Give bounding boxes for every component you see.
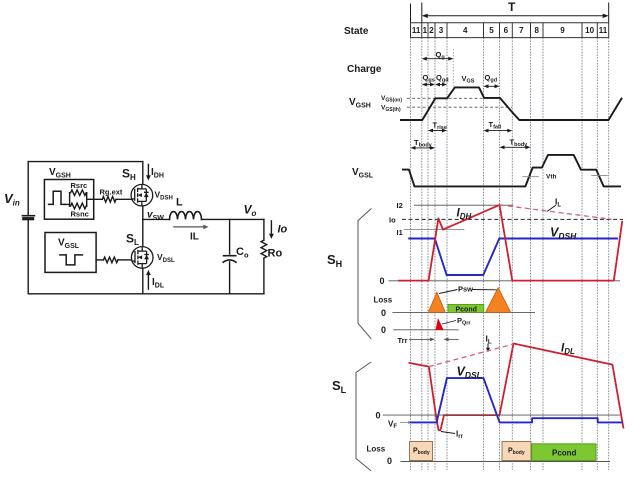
- waveform VGSH: [400, 87, 622, 120]
- loss box Pbody 1: [410, 442, 433, 461]
- svg-text:8: 8: [534, 26, 539, 35]
- gate driver box VGSH: [44, 180, 93, 220]
- svg-text:2: 2: [429, 26, 434, 35]
- Qgd right arrow: [484, 84, 500, 88]
- svg-text:0: 0: [381, 308, 386, 318]
- wire left rail lower: [27, 220, 29, 294]
- wire resistor to SL gate: [118, 259, 131, 261]
- loss box Pcond SL: [532, 444, 596, 461]
- svg-text:Ro: Ro: [268, 248, 283, 260]
- svg-text:0: 0: [380, 276, 385, 286]
- curve VDSH blue: [408, 239, 618, 276]
- wire inductor to Vo node: [202, 218, 264, 220]
- wire Ro branch upper: [263, 219, 265, 240]
- svg-text:Charge: Charge: [347, 64, 382, 75]
- level line I1: [404, 229, 464, 231]
- svg-text:11: 11: [599, 26, 608, 35]
- inductor L: [170, 212, 202, 220]
- svg-text:Rsnc: Rsnc: [71, 210, 89, 219]
- Tbody left arrow: [411, 146, 436, 150]
- zero line SH: [389, 280, 621, 282]
- pulse source symbol (high pulse): [49, 191, 65, 204]
- loss box Pbody 2: [502, 442, 531, 461]
- Tfall arrow: [484, 129, 513, 133]
- Qgd arrow: [435, 83, 447, 87]
- bracket SL: [356, 362, 371, 471]
- baseline PQrr: [393, 329, 459, 331]
- state numbers: [412, 26, 608, 35]
- state table: [411, 23, 609, 38]
- current arrow IDL: [146, 270, 151, 290]
- pulse source symbol (low pulse): [60, 255, 83, 265]
- wire VGSL box to resistor: [96, 259, 103, 261]
- svg-text:Psw: Psw: [458, 285, 473, 294]
- wire Co branch: [229, 219, 231, 293]
- svg-text:5: 5: [489, 26, 494, 35]
- Qgs arrow: [422, 83, 435, 87]
- svg-text:Rg.ext: Rg.ext: [100, 188, 123, 197]
- wire resistors to box edge: [87, 193, 103, 206]
- dashed level VGS(on): [407, 97, 500, 99]
- wire drain rail top (Vin to SH drain): [142, 162, 144, 185]
- svg-text:Pcond: Pcond: [552, 449, 577, 458]
- vertical grid lines at state boundaries: [411, 38, 609, 470]
- Vth tick left: [522, 176, 539, 178]
- transistor Q SH (high-side MOSFET with body diode): [131, 184, 153, 206]
- transistor Q SL (low-side MOSFET with body diode): [131, 247, 153, 269]
- dashed IL continuation SH: [500, 205, 612, 219]
- dashed level Io: [402, 218, 623, 220]
- svg-text:4: 4: [463, 26, 468, 35]
- svg-text:Loss: Loss: [367, 445, 386, 454]
- wire Rg_ext to SH gate: [116, 198, 131, 200]
- svg-text:0: 0: [387, 456, 392, 466]
- svg-text:L: L: [176, 197, 183, 209]
- svg-text:Loss: Loss: [374, 296, 393, 305]
- Vth tick right: [591, 174, 608, 176]
- svg-text:I2: I2: [397, 201, 403, 210]
- svg-text:Io: Io: [278, 224, 288, 236]
- loss triangle PQrr red: [436, 318, 444, 330]
- wire SL source to bottom rail: [142, 269, 144, 294]
- svg-text:Trr: Trr: [398, 336, 408, 345]
- svg-text:0: 0: [376, 411, 381, 421]
- wire switch node vSW to inductor: [143, 218, 170, 220]
- current arrow Io: [269, 220, 274, 239]
- zero line SL: [383, 414, 620, 416]
- label Psw with pointers: [439, 290, 497, 294]
- T period arrow: [411, 3, 609, 23]
- dashed level VGS(th): [407, 106, 512, 108]
- wire between SH source and SL drain: [142, 206, 144, 246]
- label IL pointer SH: [547, 205, 556, 211]
- svg-text:T: T: [508, 0, 516, 14]
- loss box Pcond SH: [448, 304, 484, 312]
- resistor Rsrc: [70, 190, 87, 196]
- svg-text:0: 0: [381, 325, 386, 335]
- wire left rail upper: [27, 162, 29, 215]
- Qg arrow: [422, 49, 454, 88]
- svg-text:10: 10: [585, 26, 594, 35]
- svg-text:3: 3: [439, 26, 444, 35]
- Trr dimension arrows: [409, 338, 459, 342]
- battery Vin: [23, 215, 35, 217]
- curve IDH red: [398, 205, 622, 281]
- resistor SL gate: [104, 257, 118, 263]
- svg-text:Rsrc: Rsrc: [71, 181, 88, 190]
- VF tick: [400, 421, 410, 423]
- wire pulse to resistors: [65, 193, 70, 206]
- curve IDL red: [409, 344, 624, 431]
- svg-text:Vth: Vth: [546, 174, 557, 181]
- resistor Rg_ext: [102, 197, 116, 203]
- label PQrr with pointer: [442, 321, 456, 325]
- wire Ro branch lower: [263, 258, 265, 294]
- loss baseline SL: [401, 461, 611, 463]
- resistor Rsnc: [70, 203, 87, 209]
- loss triangle Psw turn-on: [428, 292, 445, 312]
- loss triangle Psw turn-off: [486, 288, 511, 313]
- curve VDSL blue: [408, 378, 623, 422]
- svg-text:6: 6: [504, 26, 509, 35]
- svg-text:I1: I1: [397, 228, 403, 237]
- svg-text:State: State: [344, 26, 369, 37]
- bracket SH: [358, 208, 372, 339]
- gate driver box VGSL: [45, 233, 96, 273]
- svg-text:9: 9: [560, 26, 565, 35]
- level line I2: [414, 204, 514, 206]
- label Irr with pointer: [441, 432, 455, 434]
- Trise arrow: [428, 129, 447, 133]
- svg-text:Io: Io: [389, 216, 396, 225]
- svg-text:IL: IL: [190, 232, 199, 243]
- wire bottom rail: [28, 293, 264, 295]
- svg-text:1: 1: [423, 26, 428, 35]
- current arrow IDH: [146, 164, 151, 181]
- svg-text:11: 11: [412, 26, 421, 35]
- capacitor Co plates: [224, 255, 236, 257]
- wire top rail: [28, 161, 143, 163]
- svg-text:7: 7: [519, 26, 524, 35]
- resistor Ro: [261, 240, 267, 258]
- Tbody right arrow: [500, 145, 531, 149]
- current arrow IL: [173, 225, 208, 230]
- waveform VGSL: [402, 155, 621, 187]
- svg-text:Pcond: Pcond: [456, 306, 477, 313]
- loss baseline SH: [392, 311, 535, 313]
- dashed IL SL: [429, 344, 514, 367]
